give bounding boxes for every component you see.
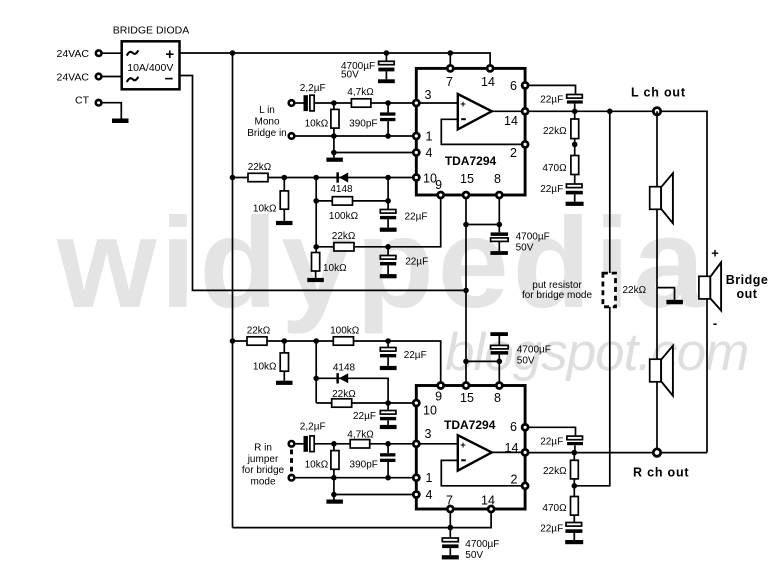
svg-text:15: 15	[460, 391, 474, 405]
svg-text:14: 14	[504, 114, 518, 128]
terminal 24VAC bottom	[96, 74, 102, 80]
op-amp U1 - input mark	[461, 118, 466, 120]
svg-text:9: 9	[435, 390, 442, 404]
svg-text:7: 7	[446, 75, 453, 89]
node +V rail / pin7	[448, 50, 454, 56]
wire L in to C2	[295, 102, 303, 104]
node lower mute row / vertical	[313, 338, 319, 344]
resistor 100k R5	[332, 197, 352, 205]
pin 10 circle U1	[413, 175, 419, 181]
wire CT to ground	[102, 103, 121, 119]
wire bridge-mode resistor top lead	[609, 111, 611, 273]
svg-text:for bridge: for bridge	[242, 465, 285, 476]
wire C2 to R2 node	[314, 102, 351, 104]
pin 3 circle U2	[413, 441, 419, 447]
speaker L	[650, 173, 673, 223]
svg-text:out: out	[737, 287, 758, 301]
svg-text:22kΩ: 22kΩ	[247, 326, 271, 337]
svg-text:3: 3	[425, 427, 432, 441]
terminal R in top	[289, 441, 295, 447]
resistor 4,7k R2	[351, 99, 371, 107]
wire pin 8 drop	[498, 199, 500, 225]
resistor 470 R18 lower	[571, 486, 579, 523]
svg-text:2: 2	[510, 146, 517, 160]
bridge rectifier B1 box	[122, 41, 180, 89]
pin 14 bottom circle U2	[488, 506, 494, 512]
wire C12 to R16 node	[314, 443, 350, 445]
svg-text:14: 14	[481, 75, 495, 89]
capacitor 22uF C14 bootstrap lower	[567, 436, 583, 453]
wire pin 7 drop	[449, 513, 451, 528]
wire lower mute row	[233, 340, 389, 342]
wire -V from bridge	[180, 76, 467, 291]
wire feedback U2	[441, 460, 525, 485]
svg-text:TDA7294: TDA7294	[444, 418, 496, 432]
svg-text:22kΩ: 22kΩ	[332, 389, 356, 400]
wire pin6 to bootstrap C14 lower	[529, 427, 576, 436]
resistor 10k R15 input lower	[331, 444, 339, 478]
node diode row left	[313, 376, 319, 382]
svg-text:4: 4	[426, 488, 433, 502]
svg-text:22µF: 22µF	[405, 256, 428, 267]
svg-text:100kΩ: 100kΩ	[330, 325, 360, 336]
wire mute vertical left	[315, 178, 317, 253]
node lower input row / 10k	[331, 475, 337, 481]
capacitor 4700uF C16 (bottom)	[442, 528, 458, 556]
wire pin 15 supply vertical	[465, 199, 467, 382]
pin 15 circle U2	[463, 383, 469, 389]
ground (C6)	[490, 251, 508, 255]
svg-text:Bridge: Bridge	[726, 273, 769, 287]
svg-text:4,7kΩ: 4,7kΩ	[347, 87, 374, 98]
resistor 22k R8 feedback	[571, 111, 579, 144]
svg-text:22kΩ: 22kΩ	[248, 162, 272, 173]
svg-text:15: 15	[460, 172, 474, 186]
wire pin15-pin8 link	[466, 224, 499, 226]
svg-text:390pF: 390pF	[349, 118, 377, 129]
wire feedback -input to pin2	[441, 119, 525, 144]
svg-text:1: 1	[426, 471, 433, 485]
node lower row / 10k	[331, 133, 337, 139]
svg-text:22kΩ: 22kΩ	[543, 466, 567, 477]
svg-text:10kΩ: 10kΩ	[253, 362, 277, 373]
terminal 24VAC top	[96, 50, 102, 56]
pin 10 circle U2	[413, 400, 419, 406]
svg-text:50V: 50V	[465, 550, 483, 561]
ground (C15)	[565, 540, 583, 544]
resistor 10k R4	[280, 178, 288, 221]
wire ground jog to pin 4	[334, 136, 416, 153]
resistor 22k R17 feedback lower	[571, 453, 579, 486]
node 4,7k/390pF lower	[385, 441, 391, 447]
pin 6 circle U2	[522, 424, 528, 430]
ground (input lower)	[326, 495, 343, 504]
ground (input upper)	[326, 153, 343, 162]
node output/C7	[572, 109, 578, 115]
svg-text:22kΩ: 22kΩ	[332, 231, 356, 242]
capacitor 2,2uF C2	[304, 95, 315, 111]
svg-text:14: 14	[481, 493, 495, 507]
svg-text:4148: 4148	[330, 184, 353, 195]
wire speaker column	[656, 111, 658, 452]
wire R in to C12	[295, 443, 303, 445]
pin 14 top circle U1	[487, 65, 493, 71]
wire 24VAC top to bridge	[103, 52, 122, 54]
node lower input row / 390pF	[385, 475, 391, 481]
node R11/R12	[282, 338, 288, 344]
node 4,7k/390pF	[385, 100, 391, 106]
svg-text:8: 8	[494, 172, 501, 186]
svg-text:4148: 4148	[333, 362, 356, 373]
wire pin15 lower link	[466, 360, 499, 362]
svg-text:10kΩ: 10kΩ	[253, 204, 277, 215]
jumper dashed wire	[290, 450, 293, 473]
wire pin3 to +input	[416, 102, 458, 104]
svg-text:-: -	[713, 316, 717, 331]
svg-text:CT: CT	[75, 95, 90, 107]
svg-text:6: 6	[510, 420, 517, 434]
svg-text:4700µF: 4700µF	[465, 539, 499, 550]
capacitor 4700uF C1 (+rail)	[378, 53, 394, 79]
svg-text:10kΩ: 10kΩ	[305, 460, 329, 471]
capacitor 2,2uF C12	[304, 436, 315, 452]
node pin8 link / C6	[497, 222, 503, 228]
svg-text:Mono: Mono	[254, 117, 279, 128]
wire R16 to pin3 lower	[370, 443, 417, 445]
svg-text:4700µF: 4700µF	[517, 344, 551, 355]
wire L output row	[529, 111, 707, 452]
svg-text:9: 9	[435, 178, 442, 192]
node pin8 lower link / C11	[497, 359, 503, 365]
ground (R12)	[276, 381, 293, 385]
pin 15 circle U1	[463, 192, 469, 198]
wire 22k row to pin 10 lower	[316, 402, 412, 404]
wire input lower row to pin 1	[295, 135, 416, 137]
op-amp U2 triangle	[458, 435, 492, 470]
speaker R	[650, 346, 673, 396]
wire bridge-mode resistor bottom lead	[574, 307, 610, 486]
ground tap between speakers	[657, 288, 683, 305]
svg-text:470Ω: 470Ω	[542, 503, 567, 514]
svg-text:10kΩ: 10kΩ	[323, 263, 347, 274]
node pin2/R8/R9	[572, 142, 578, 148]
resistor 100k R13	[333, 337, 353, 345]
ground (C1)	[378, 79, 395, 83]
resistor 10k R12	[280, 341, 288, 381]
node mute row / pin10 branch	[385, 175, 391, 181]
svg-text:100kΩ: 100kΩ	[329, 211, 359, 222]
node pin2 lower /R17/R18	[572, 483, 578, 489]
wire bottom +V rail	[233, 513, 492, 528]
resistor 470 R9	[571, 144, 579, 184]
terminal R ch out	[653, 449, 660, 456]
capacitor 22uF C9	[380, 341, 396, 366]
pin 14 out circle U2	[522, 449, 528, 455]
pin 8 circle U1	[496, 192, 502, 198]
svg-text:8: 8	[494, 391, 501, 405]
svg-text:L ch out: L ch out	[631, 86, 686, 100]
node 22k row / C10	[385, 400, 391, 406]
ground (C9)	[380, 366, 397, 370]
wire 100k row	[316, 200, 388, 202]
wire 100k row to pin 9 lower	[388, 341, 441, 382]
svg-text:50V: 50V	[517, 355, 535, 366]
pin 9 circle U2	[438, 383, 444, 389]
node 100k left	[313, 198, 319, 204]
ground (C8)	[566, 202, 584, 206]
wire diode row	[316, 378, 388, 403]
wire lower mute vertical	[315, 341, 317, 403]
ground (C11)	[490, 332, 508, 336]
pin 14 out circle U1	[522, 108, 528, 114]
capacitor 22uF C4	[380, 210, 396, 228]
capacitor 390pF C13	[380, 444, 395, 478]
bridge B1 ~ bottom symbol	[127, 77, 139, 82]
svg-text:L in: L in	[259, 105, 275, 116]
svg-text:22µF: 22µF	[353, 411, 376, 422]
node bottom rail / C16	[448, 525, 454, 531]
svg-text:+: +	[460, 440, 466, 451]
node input/10k top	[331, 100, 337, 106]
speaker bridge	[699, 262, 721, 310]
node pin15 link	[463, 222, 469, 228]
node R3/R4	[282, 175, 288, 181]
wire +V vertical rail	[232, 53, 234, 528]
terminal L in top	[289, 100, 295, 106]
wire 24VAC bottom to bridge	[102, 76, 121, 78]
resistor 22k R14	[332, 399, 352, 407]
ground (C10)	[380, 425, 397, 429]
wire +V top rail	[180, 53, 491, 68]
resistor 22k R10 dashed (bridge mode)	[603, 273, 616, 307]
node +V rail / 4700uF	[384, 50, 390, 56]
pin 6 circle U1	[522, 82, 528, 88]
svg-text:50V: 50V	[341, 70, 359, 81]
terminal R in bottom	[289, 475, 295, 481]
ground (C5)	[380, 274, 397, 278]
pin 7 circle U2	[447, 506, 453, 512]
resistor 22k R11	[247, 337, 267, 345]
capacitor 22uF C15 lower	[565, 523, 582, 541]
resistor 22k R6	[334, 243, 354, 251]
IC U1 TDA7294 box	[416, 68, 525, 195]
node rail/mute row	[230, 175, 236, 181]
ground (C4)	[380, 228, 397, 232]
ground (R4)	[276, 221, 293, 225]
terminal CT	[96, 100, 102, 106]
svg-text:4,7kΩ: 4,7kΩ	[347, 429, 374, 440]
pin 9 circle U1	[438, 192, 444, 198]
svg-text:BRIDGE DIODA: BRIDGE DIODA	[113, 25, 189, 37]
svg-text:6: 6	[510, 79, 517, 93]
svg-text:jumper: jumper	[247, 454, 279, 465]
pin 4 circle U1	[413, 150, 419, 156]
svg-text:24VAC: 24VAC	[57, 48, 90, 60]
capacitor 22uF C7 bootstrap	[567, 95, 583, 112]
pin 8 circle U2	[496, 383, 502, 389]
wire 22k row to pin 9	[316, 199, 441, 247]
svg-text:22µF: 22µF	[405, 211, 428, 222]
node input/10k lower	[331, 441, 337, 447]
resistor 10k R7	[312, 253, 320, 278]
op-amp U2 - input mark	[461, 459, 466, 461]
svg-text:22µF: 22µF	[404, 350, 427, 361]
op-amp U1 triangle	[458, 94, 492, 129]
svg-text:22µF: 22µF	[540, 523, 563, 534]
node rail/lower mute row	[230, 338, 236, 344]
resistor 10k R1 input	[331, 103, 339, 136]
wire ground jog to pin 4 lower	[334, 478, 416, 495]
node output/bridge resistor	[607, 109, 613, 115]
IC U2 TDA7294 box	[416, 386, 525, 510]
svg-text:−: −	[165, 71, 174, 88]
node ground jog lower	[331, 492, 337, 498]
diode 4148 D1	[336, 172, 348, 182]
wire R2 to pin3	[371, 102, 416, 104]
svg-text:mode: mode	[250, 476, 275, 487]
wire pin3 to +input U2	[416, 443, 458, 445]
svg-text:Bridge in: Bridge in	[247, 128, 286, 139]
diode 4148 D2	[336, 373, 348, 383]
svg-text:24VAC: 24VAC	[57, 72, 90, 84]
svg-text:4: 4	[426, 146, 433, 160]
svg-text:4700µF: 4700µF	[516, 231, 550, 242]
node pin15 lower link	[463, 359, 469, 365]
wire mute branch vertical	[387, 178, 389, 210]
svg-text:22µF: 22µF	[540, 94, 563, 105]
svg-text:470Ω: 470Ω	[542, 163, 567, 174]
wire R output row	[529, 452, 707, 454]
svg-text:22µF: 22µF	[540, 184, 563, 195]
node mute row / vertical	[313, 175, 319, 181]
pin 2 circle U1	[522, 141, 528, 147]
svg-text:7: 7	[446, 493, 453, 507]
wire pin 8 lower drop	[498, 361, 500, 381]
wire upper mute row to pin 10	[233, 177, 413, 179]
node R output/C14	[572, 450, 578, 456]
pin 4 circle U2	[413, 492, 419, 498]
node +V rail / rail down	[230, 50, 236, 56]
wire output to pin14	[492, 110, 525, 112]
svg-text:TDA7294: TDA7294	[445, 154, 497, 168]
wire pin6 to bootstrap C7	[529, 85, 576, 94]
svg-text:2,2µF: 2,2µF	[300, 421, 326, 432]
svg-text:3: 3	[425, 88, 432, 102]
node 100k right	[385, 198, 391, 204]
svg-text:for bridge mode: for bridge mode	[522, 290, 592, 301]
svg-text:22kΩ: 22kΩ	[623, 285, 647, 296]
svg-text:10kΩ: 10kΩ	[305, 118, 329, 129]
bridge B1 ~ top symbol	[127, 50, 139, 55]
node lower row / 390pF	[385, 133, 391, 139]
svg-text:1: 1	[426, 129, 433, 143]
svg-text:2: 2	[511, 473, 518, 487]
svg-text:R in: R in	[254, 443, 272, 454]
ground (CT)	[112, 119, 129, 124]
ground (R7)	[307, 278, 324, 282]
pin 1 circle U1	[413, 133, 419, 139]
pin 1 circle U2	[413, 475, 419, 481]
node ground jog	[331, 150, 337, 156]
node 22k row right	[385, 244, 391, 250]
svg-text:+: +	[460, 99, 466, 110]
svg-text:blogspot.com: blogspot.com	[445, 323, 748, 382]
terminal L in bottom	[289, 133, 295, 139]
svg-text:2,2µF: 2,2µF	[300, 83, 326, 94]
resistor 4,7k R16	[350, 440, 370, 448]
pin 2 circle U2	[522, 483, 528, 489]
svg-text:R ch out: R ch out	[633, 465, 689, 479]
svg-text:22µF: 22µF	[540, 436, 563, 447]
node 100k right lower	[385, 338, 391, 344]
svg-text:+: +	[165, 46, 174, 63]
ground (C16)	[442, 555, 459, 559]
svg-text:22kΩ: 22kΩ	[543, 126, 567, 137]
capacitor 22uF C5	[380, 247, 396, 274]
capacitor 4700uF C6 (-rail upper)	[491, 225, 509, 252]
node -V rail / pin15	[463, 288, 469, 294]
capacitor 390pF C3	[380, 103, 395, 136]
wire lower input row to pin 1	[295, 477, 416, 479]
svg-text:14: 14	[505, 441, 519, 455]
wire output to pin14 U2	[492, 451, 525, 453]
capacitor 22uF C8	[566, 184, 583, 202]
wire pin7 stub	[449, 53, 451, 68]
svg-text:10: 10	[423, 404, 437, 418]
node 22k row left	[313, 244, 319, 250]
capacitor 22uF C10	[380, 403, 396, 425]
terminal L ch out	[653, 108, 660, 115]
pin 7 circle U1	[447, 65, 453, 71]
capacitor 4700uF C11 (-rail lower)	[491, 336, 509, 361]
svg-text:390pF: 390pF	[350, 460, 378, 471]
resistor 22k R3 mute	[248, 173, 268, 181]
svg-text:50V: 50V	[516, 242, 534, 253]
pin 3 circle U1	[413, 100, 419, 106]
svg-text:+: +	[711, 246, 719, 261]
